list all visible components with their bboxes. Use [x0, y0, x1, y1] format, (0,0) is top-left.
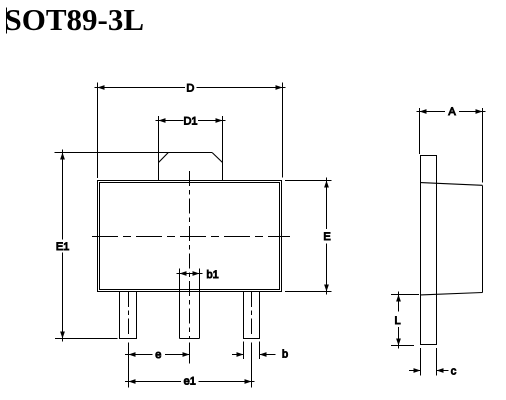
dimension b extension lines	[243, 342, 245, 359]
dimension b arrows	[237, 352, 244, 357]
dimension E extension lines	[285, 180, 332, 182]
svg-text:E: E	[323, 231, 330, 243]
dimension c extension lines	[420, 348, 422, 376]
side view: body top slant	[421, 183, 483, 186]
dimension D1 arrows	[159, 118, 166, 123]
svg-text:D: D	[186, 82, 194, 94]
svg-text:E1: E1	[56, 241, 69, 253]
dimension c arrows	[414, 368, 421, 373]
title SOT89-3L	[5, 1, 145, 39]
dimension e1 right extension line	[251, 343, 253, 388]
svg-text:L: L	[394, 315, 400, 327]
middle pin bottom	[180, 338, 200, 340]
svg-text:b1: b1	[207, 269, 219, 281]
tab top edge with E1 extension line	[55, 152, 213, 154]
svg-text:e: e	[155, 349, 161, 361]
front view: body inner outline	[100, 183, 280, 290]
svg-text:c: c	[451, 366, 457, 378]
dimension D line	[95, 87, 186, 89]
tab left side / D1 extension line	[158, 116, 160, 181]
horizontal center line	[92, 236, 290, 238]
dimension L extension lines	[391, 294, 419, 296]
dimension e arrows	[129, 352, 136, 357]
dimension E arrows	[324, 181, 329, 188]
front view: body outer outline	[98, 181, 282, 292]
dimension E1 line	[62, 150, 64, 240]
dimension A line	[417, 111, 446, 113]
dimension e1 arrows	[129, 379, 136, 384]
side view: body bottom slant	[421, 293, 483, 295]
dimension E line	[326, 178, 328, 230]
tab right chamfer	[212, 153, 222, 163]
dimension L line	[398, 292, 400, 312]
svg-text:b: b	[282, 349, 288, 361]
tab left chamfer	[159, 153, 169, 163]
right pin	[244, 292, 260, 339]
right pin center line	[251, 292, 253, 338]
dimension A extension lines	[419, 108, 421, 154]
dimension E1 bottom extension line	[55, 338, 118, 340]
dimension E1 arrows	[60, 153, 65, 160]
svg-text:A: A	[448, 106, 456, 118]
left pin center line	[128, 292, 130, 338]
tab right side / D1 extension line	[222, 116, 224, 181]
side view: body right edge	[482, 185, 484, 292]
dimension A arrows	[420, 109, 427, 114]
dimension c line	[409, 370, 421, 372]
dimension e extension lines	[128, 343, 130, 388]
vertical center line	[189, 171, 191, 338]
text caret	[6, 7, 8, 33]
dimension e1 line	[125, 381, 181, 383]
dimension b1 line	[177, 273, 203, 275]
svg-text:D1: D1	[183, 116, 197, 128]
dimension D extension lines	[97, 83, 99, 178]
svg-text:e1: e1	[184, 376, 196, 388]
dimension b line	[232, 354, 244, 356]
left pin	[120, 292, 137, 339]
middle pin sides / b1 extension lines	[179, 269, 181, 339]
side view: lead plate	[421, 156, 437, 345]
dimension L arrows	[396, 295, 401, 302]
dimension e line	[125, 354, 153, 356]
dimension D arrows	[98, 85, 105, 90]
dimension b1 arrows	[180, 271, 187, 276]
dimension D1 line	[156, 120, 184, 122]
